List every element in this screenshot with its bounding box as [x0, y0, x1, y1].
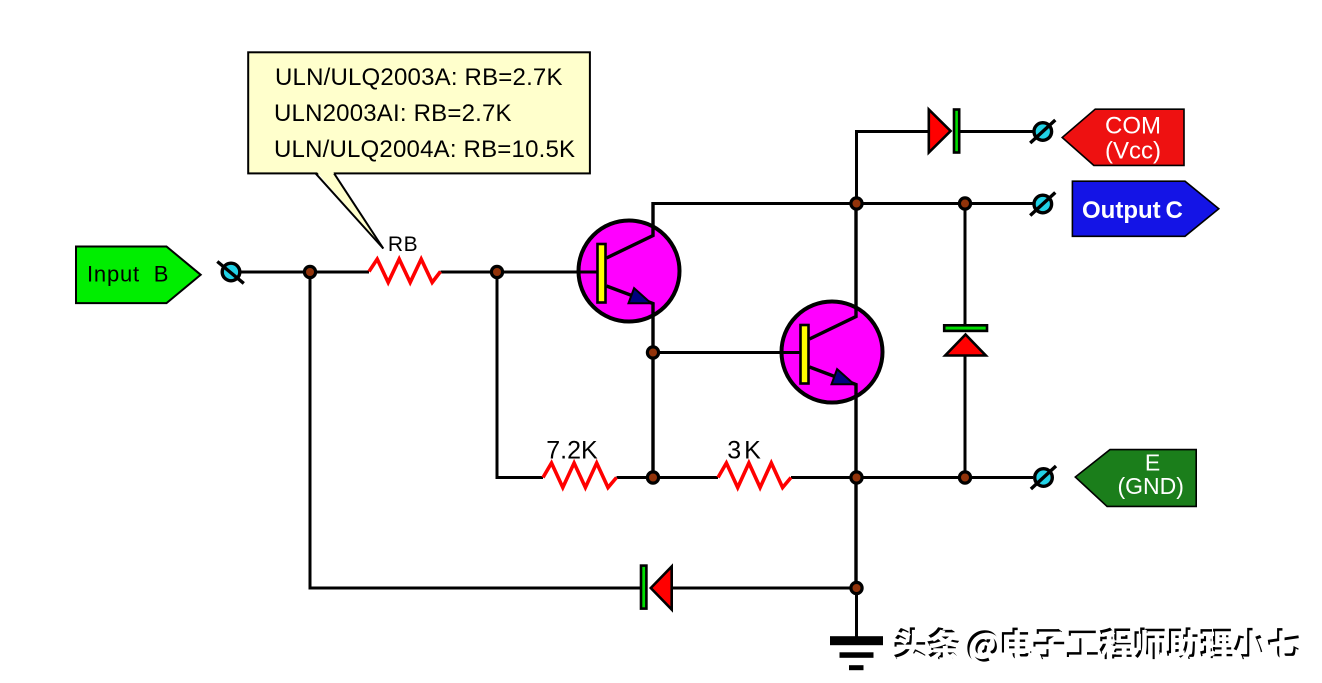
terminal Output C — [1030, 193, 1055, 216]
wire: collector rail top horizontal — [652, 202, 1034, 205]
flag label E (GND) — [1075, 450, 1196, 507]
svg-text:ULN2003AI: RB=2.7K: ULN2003AI: RB=2.7K — [274, 100, 512, 127]
junction bottom wire / ground — [851, 582, 862, 593]
junction emitter rail / R1 R2 — [647, 472, 658, 483]
junction top rail / COM branch — [851, 198, 862, 209]
terminal Input B — [217, 262, 244, 284]
svg-text:ULN/ULQ2004A: RB=10.5K: ULN/ULQ2004A: RB=10.5K — [274, 136, 575, 163]
junction node B2 — [491, 266, 502, 277]
resistor R1 7.2K — [543, 463, 617, 488]
diode D1 (COM clamp, anode left) — [929, 110, 959, 153]
svg-text:ULN/ULQ2003A: RB=2.7K: ULN/ULQ2003A: RB=2.7K — [275, 64, 563, 91]
diode D3 (input clamp, cathode left) — [641, 566, 672, 610]
wire: node B2 vertical down to 7.2K — [496, 272, 499, 478]
svg-text:E: E — [1145, 450, 1160, 476]
svg-text:Output C: Output C — [1082, 197, 1183, 224]
wire: bottom left horizontal to diode D3 — [309, 587, 643, 590]
svg-text:COM: COM — [1105, 113, 1161, 140]
flag label Input B — [76, 247, 201, 304]
junction emitter rail / clamp diode — [959, 472, 970, 483]
svg-text:(GND): (GND) — [1117, 473, 1183, 499]
flag label Output C — [1072, 181, 1218, 236]
wire: input terminal to node B1 — [240, 271, 369, 274]
svg-text:(Vcc): (Vcc) — [1105, 138, 1161, 165]
junction node B1 — [304, 266, 315, 277]
junction Q1 emitter / Q2 base — [647, 347, 658, 358]
wire: diode D2 to emitter rail — [964, 355, 967, 478]
wire: diode D3 to node G1 — [672, 587, 857, 590]
wire: diode D1 to COM terminal — [960, 130, 1033, 133]
resistor RB — [369, 259, 441, 282]
junction top rail / clamp branch — [959, 198, 970, 209]
transistor Q1 — [575, 202, 680, 479]
wire: node G1 down to ground — [855, 587, 858, 638]
ground — [830, 636, 883, 670]
wire: Q1 emitter node to Q2 base — [653, 351, 800, 354]
svg-text:3K: 3K — [727, 437, 764, 465]
diode D2 (output clamp, cathode up) — [944, 325, 987, 355]
terminal E — [1031, 466, 1056, 489]
junction emitter rail / Q2 emitter — [851, 472, 862, 483]
wire: RB right to Q1 base — [441, 271, 598, 274]
resistor R2 3K — [718, 463, 791, 488]
terminal COM — [1030, 120, 1055, 143]
note box RB values — [248, 52, 590, 173]
flag label COM (Vcc) — [1062, 109, 1184, 165]
wire: Q1 collector vertical to top rail — [652, 202, 655, 236]
wire: node B1 vertical down to bottom diode wire — [309, 272, 312, 588]
wire: clamp branch vertical top rail to diode D2 — [964, 204, 967, 327]
transistor Q2 — [778, 204, 883, 590]
svg-text:7.2K: 7.2K — [546, 437, 598, 465]
wire: emitter rail E horizontal — [496, 476, 1034, 479]
wire: COM branch up and right to diode D1 — [857, 132, 929, 206]
note box pointer — [316, 172, 384, 249]
watermark 头条 @电子工程师助理小七 (drawn as paths) — [894, 627, 1301, 665]
svg-text:RB: RB — [388, 233, 418, 256]
svg-text:Input B: Input B — [87, 262, 169, 287]
